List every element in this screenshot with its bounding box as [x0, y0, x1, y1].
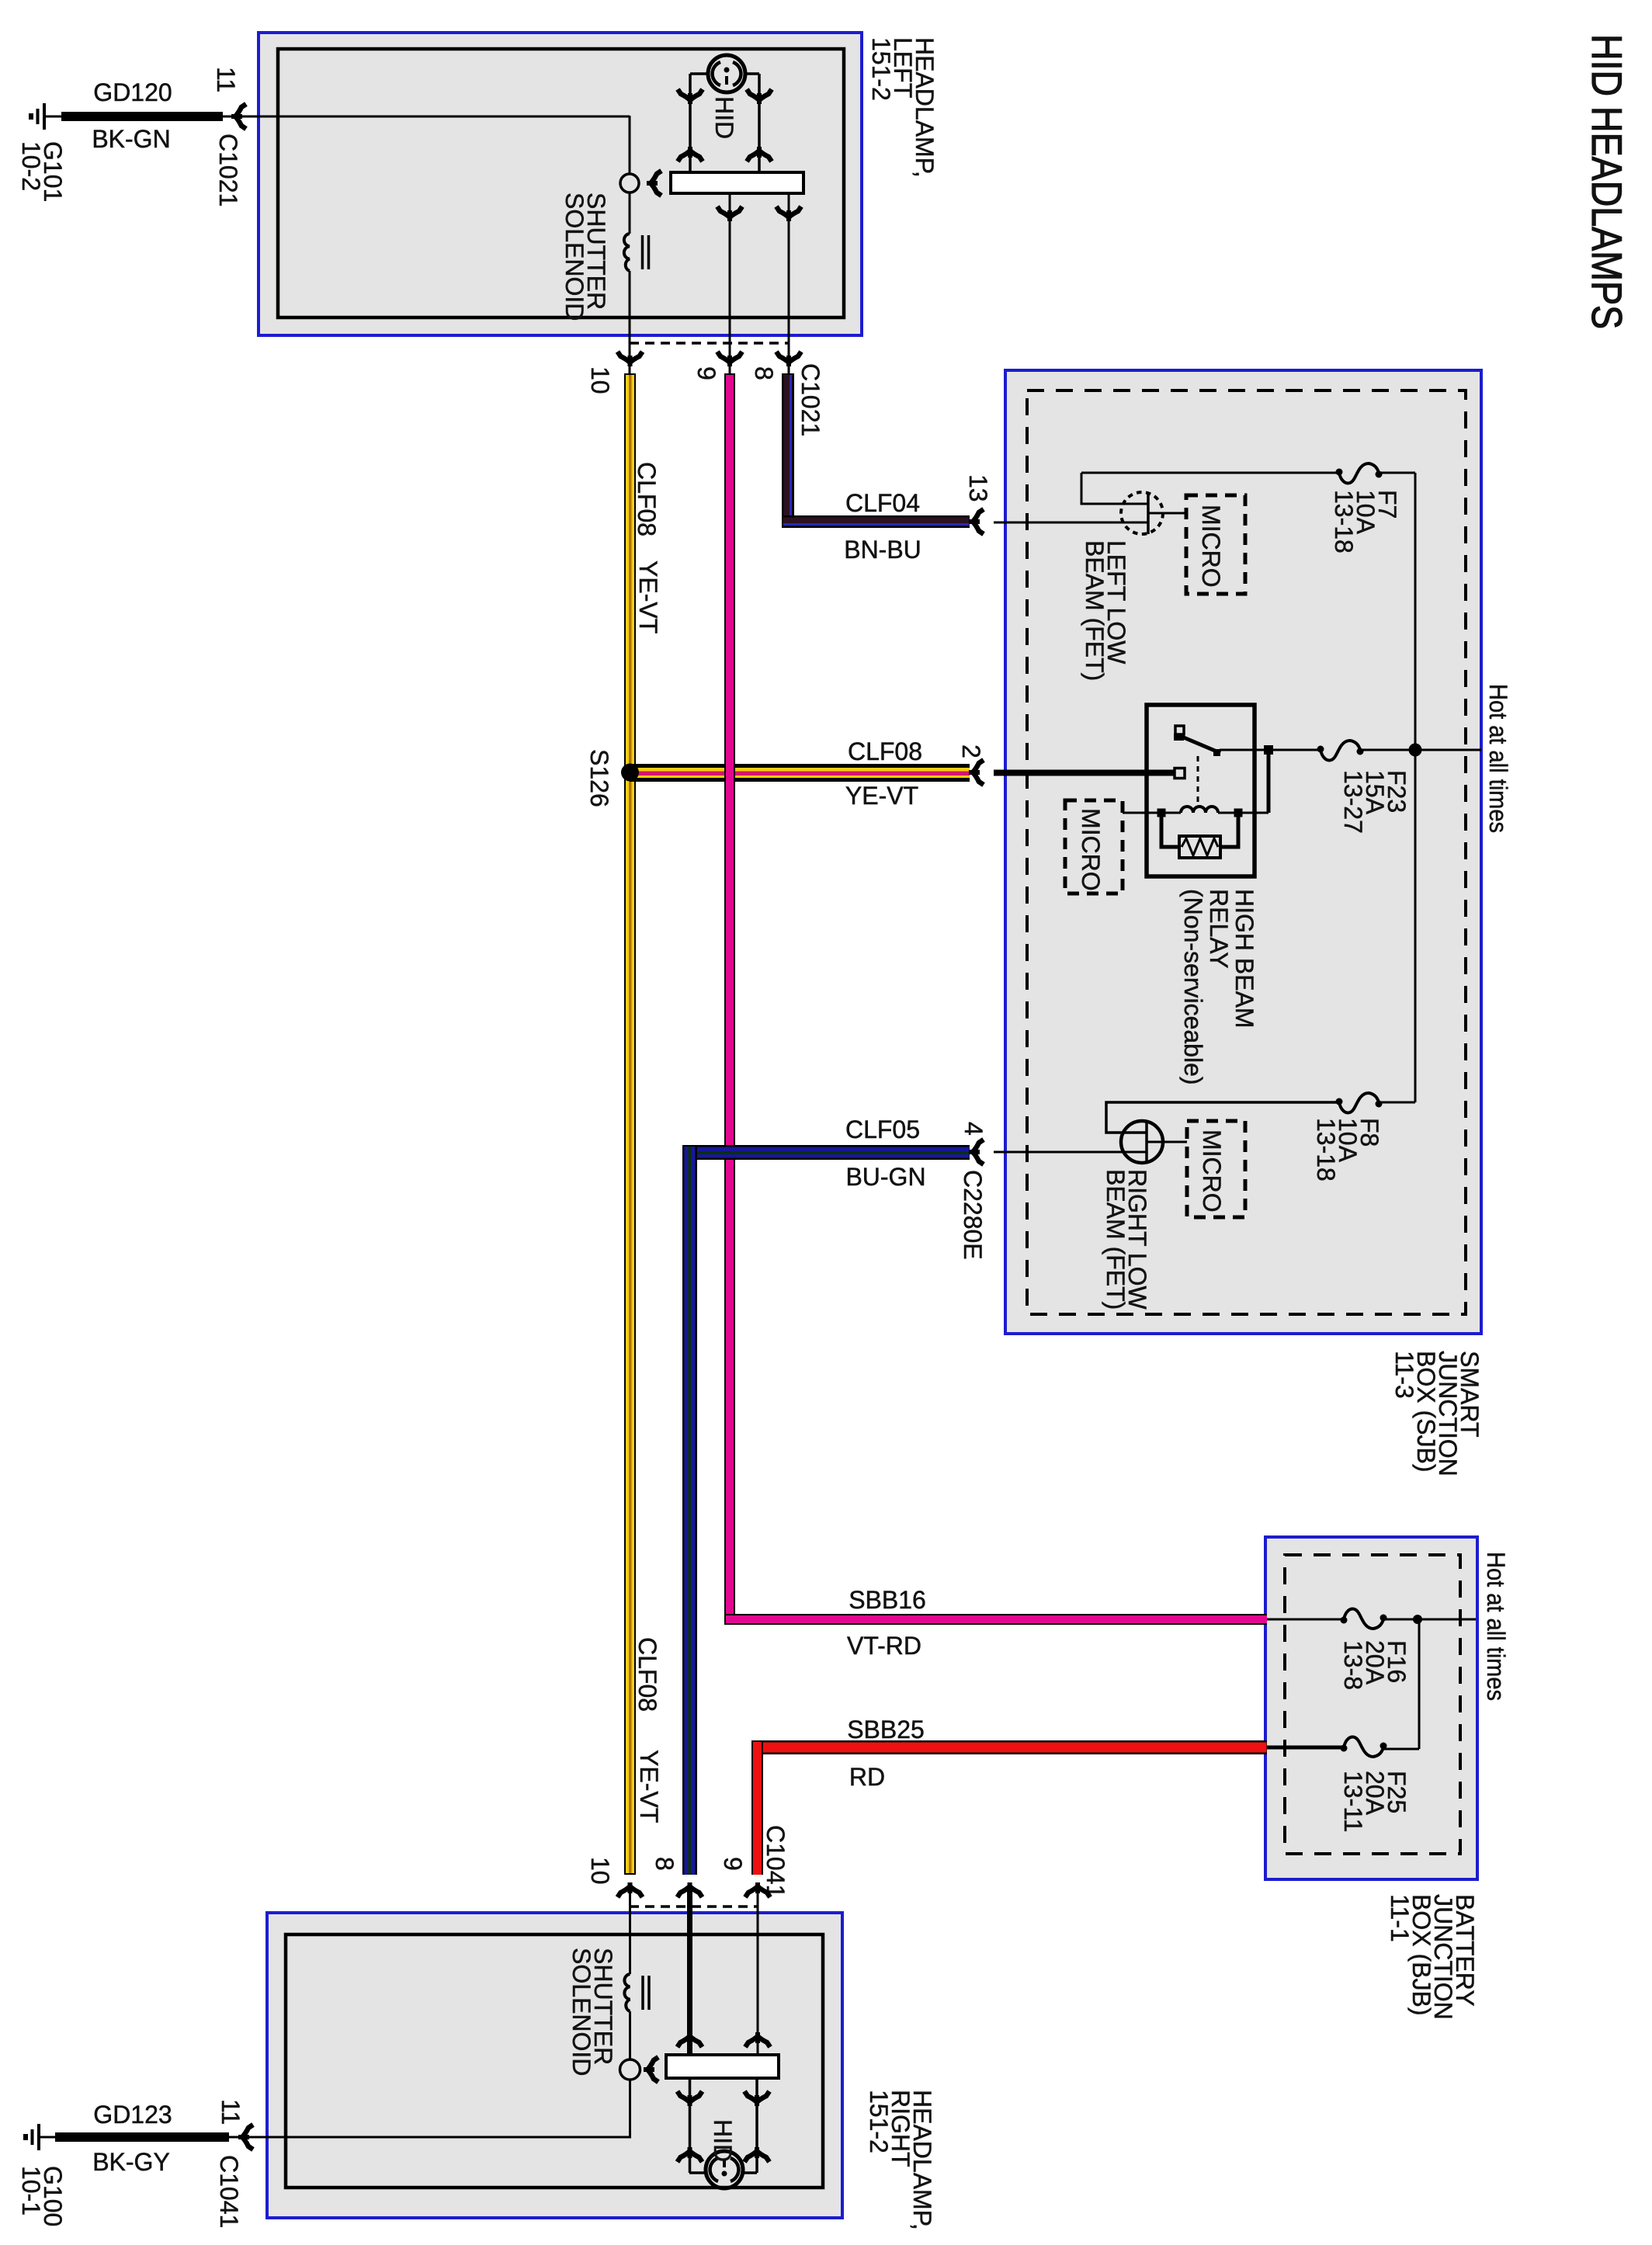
battery junction box outer blue box: [1265, 1537, 1477, 1879]
wire SBB16 VT-RD vertical magenta: [724, 373, 735, 1625]
label HIGH BEAM RELAY (Non-serviceable): [1179, 889, 1258, 1085]
lamp lead left: [690, 72, 708, 75]
label F16 20A 13-8: [1339, 1640, 1411, 1690]
svg-text:MICRO: MICRO: [1197, 505, 1225, 588]
connector arrow SJB pin 2: [969, 760, 984, 785]
wire SBB25 RD vertical red: [751, 1740, 763, 1875]
BJB internal: trace SBB16 to F16: [1267, 1619, 1341, 1621]
micro control box 1: [1186, 495, 1245, 594]
wire CLF05 BU-GN horizontal navy: [682, 1145, 970, 1160]
relay coil lead right: [1218, 812, 1268, 814]
svg-text:BN-BU: BN-BU: [844, 536, 921, 564]
trace F23 to hot bus: [1361, 749, 1481, 751]
connector arrow C1021 pin 11: [231, 104, 246, 129]
relay pivot blob: [1174, 734, 1184, 741]
headlamp left inner component box: [278, 49, 844, 317]
left low beam FET chord: [1147, 492, 1150, 534]
relay terminal square: [1264, 745, 1273, 755]
label F25 20A 13-11: [1339, 1771, 1411, 1832]
svg-text:C2280E: C2280E: [959, 1170, 987, 1260]
fuse F23 15A: [1317, 741, 1364, 760]
connector arrow pin 9: [717, 352, 742, 366]
svg-text:13-8: 13-8: [1339, 1640, 1367, 1690]
wire CLF05 BU-GN vertical navy: [682, 1145, 697, 1875]
svg-text:RD: RD: [849, 1763, 885, 1791]
svg-text:VT-RD: VT-RD: [847, 1632, 921, 1660]
svg-text:Hot at all times: Hot at all times: [1484, 684, 1512, 833]
connector arrow pin 10: [618, 352, 643, 366]
svg-text:13-11: 13-11: [1339, 1771, 1367, 1832]
lamp lead right: [745, 72, 759, 75]
svg-text:10: 10: [586, 366, 614, 394]
connector arrow pin 10 bottom: [618, 1882, 643, 1897]
arrow down below ballast left: [717, 206, 742, 221]
relay movable arm: [1180, 736, 1220, 753]
arrow up on right lamp wire: [747, 147, 772, 161]
hid lamp bulb left headlamp: [708, 55, 745, 92]
right low beam FET source trace from pin 4: [994, 1151, 1147, 1154]
svg-text:10-1: 10-1: [17, 2166, 45, 2216]
label HEADLAMP, RIGHT 151-2: [865, 2090, 936, 2230]
thick trace SBB25 to F25: [1267, 1746, 1341, 1750]
wire CLF04 BN-BU vertical dark: [782, 373, 794, 528]
svg-text:11-3: 11-3: [1390, 1351, 1418, 1399]
lead pin 9 into ballast: [757, 1888, 759, 2055]
wire SBB25 RD horizontal red: [751, 1740, 1267, 1754]
svg-text:10-2: 10-2: [17, 141, 45, 191]
thick feed wire pin 2 to relay contact: [994, 770, 1174, 776]
svg-text:Hot at all times: Hot at all times: [1482, 1552, 1510, 1701]
arrow up on left lamp wire: [678, 147, 703, 161]
lamp lead right bottom: [743, 2171, 757, 2174]
ballast to lamp wire right: [755, 2078, 758, 2173]
smart junction box dashed border: [1027, 390, 1466, 1314]
right bus vertical trace: [1414, 473, 1417, 1102]
svg-text:8: 8: [651, 1857, 678, 1871]
trace ballast to pin 8: [788, 193, 790, 377]
svg-text:SOLENOID: SOLENOID: [560, 193, 588, 321]
headlamp right outer box: [267, 1913, 842, 2218]
relay arm end square: [1213, 749, 1220, 756]
svg-text:GD123: GD123: [93, 2101, 172, 2129]
label RIGHT LOW BEAM (FET): [1102, 1169, 1151, 1310]
arrow into solenoid circle bottom: [644, 2057, 658, 2082]
connector arrow pin 9 bottom: [745, 1882, 770, 1897]
bottom connector thin leads into right headlamp: [629, 1886, 631, 1974]
svg-text:BK-GN: BK-GN: [92, 125, 170, 153]
arrow up into pin 8 lead: [678, 2032, 703, 2047]
svg-text:CLF08: CLF08: [848, 737, 922, 765]
ballast module rectangle left headlamp: [671, 172, 803, 193]
solenoid feed circle right headlamp: [620, 2059, 640, 2080]
svg-text:CLF05: CLF05: [845, 1116, 920, 1143]
trace coil to circle: [629, 2011, 631, 2060]
svg-text:MICRO: MICRO: [1198, 1129, 1226, 1213]
svg-text:11: 11: [217, 2099, 245, 2125]
headlamp left outer box (connector body): [259, 33, 862, 335]
lamp lead left bottom: [689, 2171, 706, 2174]
relay pivot contact square: [1175, 726, 1184, 734]
label SMART JUNCTION BOX (SJB) 11-3: [1390, 1351, 1484, 1476]
wire GD123 BK-GY thick ground wire: [55, 2132, 229, 2142]
left low beam FET drain corner: [1081, 473, 1148, 504]
high beam relay box: [1147, 705, 1255, 876]
svg-text:13-27: 13-27: [1339, 770, 1367, 834]
svg-text:11: 11: [212, 67, 240, 92]
wire lamp to ballast right: [758, 74, 761, 172]
ground trace inside right headlamp: [247, 2080, 630, 2137]
coil node square right: [1234, 809, 1243, 817]
resistor branch right leg: [1220, 813, 1238, 847]
fuse F16 20A: [1341, 1609, 1387, 1629]
svg-text:YE-VT: YE-VT: [635, 1750, 663, 1823]
ground G101 lead wire: [44, 116, 62, 118]
svg-text:YE-VT: YE-VT: [845, 782, 918, 810]
hid lamp bulb right headlamp: [706, 2151, 743, 2188]
svg-text:BEAM (FET): BEAM (FET): [1081, 540, 1109, 681]
arrow down on left lamp wire: [678, 89, 703, 104]
svg-text:GD120: GD120: [93, 78, 172, 106]
micro control box 2: [1065, 800, 1123, 893]
fuse F7 10A: [1336, 463, 1383, 483]
trace relay terminal to F23: [1273, 749, 1318, 751]
arrow down below ballast bottom box right: [744, 2091, 769, 2106]
arrow down below ballast bottom box left: [678, 2091, 703, 2106]
arrow into solenoid circle: [647, 171, 661, 196]
left low beam FET circle: [1121, 492, 1163, 534]
relay terminal to coil vertical: [1267, 755, 1271, 813]
label F7 10A 13-18: [1330, 490, 1401, 553]
svg-text:S126: S126: [585, 749, 613, 807]
svg-text:9: 9: [692, 366, 720, 380]
svg-text:HID HEADLAMPS: HID HEADLAMPS: [1583, 34, 1631, 329]
label F8 10A 13-18: [1312, 1118, 1383, 1181]
relay common trace to terminal: [1220, 749, 1265, 751]
arrow up into pin 9 lead: [745, 2032, 770, 2047]
battery junction box dashed border: [1285, 1555, 1460, 1854]
relay actuation dashed link: [1197, 756, 1199, 807]
svg-text:HIGH BEAM: HIGH BEAM: [1230, 889, 1258, 1029]
connector arrow pin 8: [776, 352, 801, 366]
resistor box: [1179, 836, 1220, 858]
svg-text:YE-VT: YE-VT: [634, 560, 662, 633]
wire CLF04 BN-BU horizontal dark to SJB pin 13: [782, 515, 970, 528]
ballast module rectangle right headlamp: [666, 2055, 779, 2078]
ballast output traces to pins 9 and 8: [729, 193, 731, 377]
wire SBB16 VT-RD horizontal magenta to BJB: [724, 1614, 1267, 1625]
trace F8 to right low beam FET corner: [1106, 1102, 1337, 1133]
svg-text:C1021: C1021: [796, 363, 824, 436]
svg-text:13-18: 13-18: [1330, 490, 1358, 553]
solenoid feed circle left headlamp: [620, 174, 639, 193]
left low beam FET gate trace: [1148, 512, 1186, 515]
svg-text:4: 4: [960, 1122, 987, 1136]
coil node square left: [1157, 809, 1166, 817]
label BATTERY JUNCTION BOX (BJB) 11-1: [1386, 1894, 1479, 2020]
svg-text:HID: HID: [709, 2119, 737, 2162]
relay coil arcs: [1181, 807, 1218, 813]
svg-text:BEAM (FET): BEAM (FET): [1102, 1169, 1130, 1310]
label HEADLAMP, LEFT 151-2: [867, 37, 939, 178]
svg-text:SBB16: SBB16: [849, 1586, 926, 1614]
wire GD120 BK-GN thick ground wire: [61, 112, 223, 121]
connector arrow SJB pin 13: [969, 509, 984, 534]
svg-text:13: 13: [964, 474, 992, 502]
svg-text:MICRO: MICRO: [1077, 808, 1105, 891]
wire lamp to ballast left: [689, 74, 692, 172]
svg-text:RELAY: RELAY: [1205, 889, 1233, 969]
svg-text:151-2: 151-2: [867, 37, 895, 101]
wire CLF08 YE-VT vertical yellow: [624, 373, 636, 1875]
svg-text:C1021: C1021: [214, 134, 242, 206]
trace coil to connector pin 10: [629, 271, 631, 377]
resistor branch left leg: [1161, 813, 1179, 847]
ground G100 lead wire: [39, 2136, 55, 2139]
svg-text:9: 9: [719, 1857, 747, 1871]
ground G100 symbol: [26, 2124, 39, 2150]
svg-text:CLF08: CLF08: [633, 462, 661, 536]
label F23 15A 13-27: [1339, 770, 1411, 834]
fuse F8 10A: [1336, 1093, 1383, 1112]
trace circle to coil: [629, 193, 631, 234]
svg-text:SOLENOID: SOLENOID: [567, 1948, 595, 2076]
left low beam FET source trace from pin 13: [994, 522, 1148, 524]
connector arrow SJB pin 4: [969, 1140, 984, 1164]
connector C1041 dashed line: [630, 1905, 758, 1908]
svg-text:(Non-serviceable): (Non-serviceable): [1179, 889, 1207, 1085]
svg-text:10: 10: [586, 1857, 614, 1885]
junction dot hot bus: [1409, 744, 1422, 757]
micro control box 3: [1187, 1121, 1245, 1217]
smart junction box outer blue box: [1005, 370, 1481, 1334]
arrow down below ballast right: [776, 206, 801, 221]
svg-text:11-1: 11-1: [1386, 1894, 1414, 1942]
BJB hot node vertical trace: [1418, 1619, 1421, 1749]
ground trace inside left headlamp: [629, 116, 631, 174]
trace F25 to hot node vertical: [1384, 1748, 1419, 1751]
right low beam FET chord: [1145, 1121, 1148, 1163]
wire thin lead from pin 11: [229, 2136, 242, 2139]
wire CLF08 YE-VT horizontal to SJB pin 2: [630, 764, 970, 782]
ground G101 symbol: [31, 103, 44, 130]
right low beam FET circle: [1121, 1121, 1163, 1163]
label LEFT LOW BEAM (FET): [1081, 540, 1130, 681]
svg-text:HID: HID: [710, 96, 738, 139]
svg-text:151-2: 151-2: [865, 2090, 893, 2153]
svg-text:CLF08: CLF08: [633, 1637, 661, 1712]
arrow up above lamp left: [678, 2147, 703, 2162]
arrow down on right lamp wire: [747, 89, 772, 104]
connector C1021 dashed line: [630, 342, 789, 345]
label SHUTTER SOLENOID left: [560, 193, 610, 321]
svg-text:8: 8: [750, 366, 778, 380]
wire thin lead into headlamp left pin 11: [223, 116, 630, 118]
ballast to lamp wire left: [689, 2078, 692, 2173]
fuse F25 20A: [1341, 1737, 1387, 1757]
lead pin 8 thick into ballast: [687, 1888, 692, 2055]
headlamp right inner component box: [286, 1934, 823, 2188]
junction dot BJB hot node: [1413, 1615, 1422, 1624]
solenoid coil left headlamp: [624, 234, 649, 271]
svg-text:C1041: C1041: [762, 1825, 790, 1898]
right low beam FET gate trace: [1147, 1141, 1187, 1143]
connector arrow C1041 pin 11: [238, 2125, 253, 2150]
label SHUTTER SOLENOID right: [567, 1948, 617, 2076]
trace F16 to hot node: [1384, 1619, 1476, 1621]
svg-text:C1041: C1041: [215, 2155, 243, 2228]
arrow up above lamp right: [744, 2147, 769, 2162]
SJB internal: F7 supply trace: [1081, 472, 1337, 474]
splice S126 junction dot: [621, 764, 639, 782]
connector arrow pin 8 bottom: [678, 1882, 703, 1897]
svg-text:BK-GY: BK-GY: [92, 2148, 170, 2176]
relay input contact square: [1175, 769, 1185, 779]
svg-text:BU-GN: BU-GN: [845, 1163, 925, 1191]
svg-text:13-18: 13-18: [1312, 1118, 1340, 1181]
relay coil lead left: [1123, 812, 1181, 814]
svg-text:CLF04: CLF04: [845, 489, 920, 517]
resistor zigzag: [1182, 838, 1218, 855]
solenoid coil right headlamp: [624, 1974, 649, 2011]
trace F8 feed from right bus: [1380, 1102, 1415, 1104]
trace F7 to right bus corner: [1380, 472, 1415, 474]
svg-text:SBB25: SBB25: [847, 1716, 925, 1744]
svg-text:2: 2: [957, 744, 985, 758]
